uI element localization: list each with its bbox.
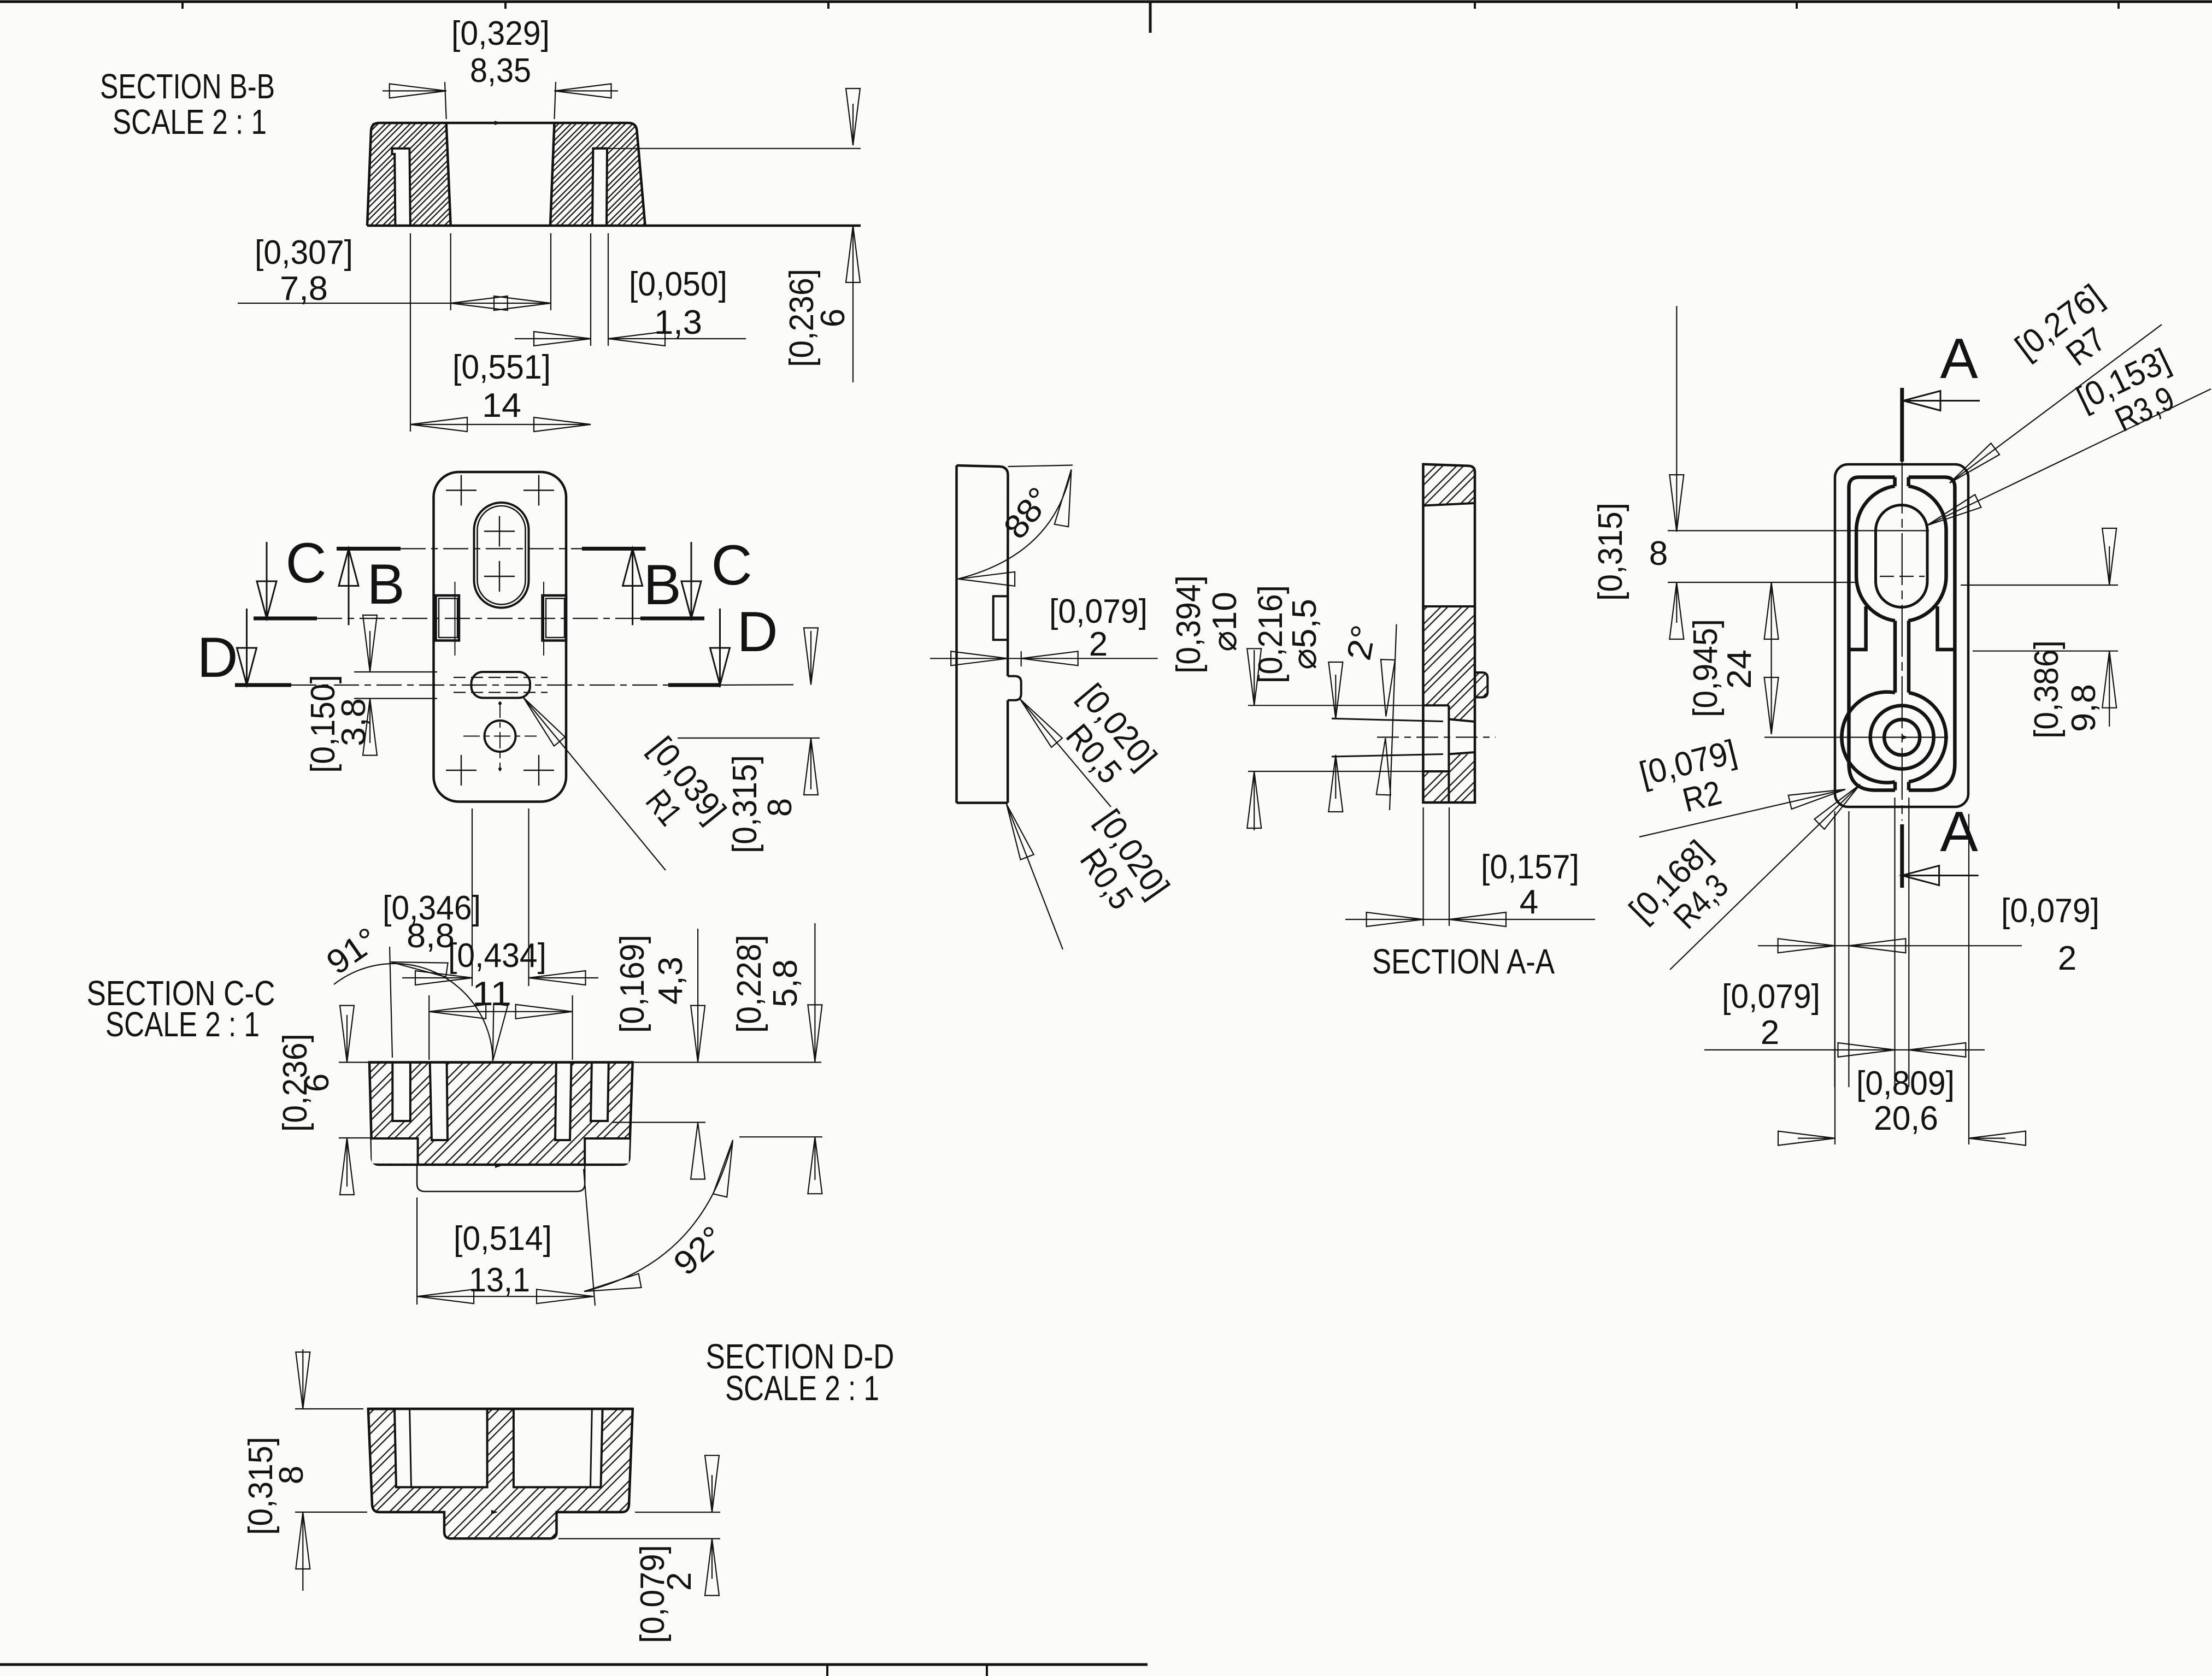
top edge re-stroke (368, 1408, 633, 1411)
inner opening walls (446, 123, 555, 226)
part outline (367, 123, 645, 226)
hatched bottom blocks (1423, 754, 1475, 803)
dim 4,3 vertical outside arrows (697, 929, 698, 1063)
svg-text:14: 14 (482, 387, 521, 424)
svg-text:4,3: 4,3 (652, 957, 690, 1005)
svg-text:A: A (1940, 327, 1978, 391)
svg-text:[0,315]: [0,315] (242, 1437, 280, 1535)
short centerline obround bottom arc (1880, 576, 1925, 577)
left edge (955, 465, 958, 803)
92 deg arc (584, 1140, 733, 1291)
inner wall right (1909, 477, 1955, 790)
svg-text:[0,329]: [0,329] (451, 15, 550, 52)
section line C-C (254, 617, 317, 621)
dim 7,8 line, inside outward arrows (238, 303, 551, 304)
bottom tab (background feature, unsectioned) (417, 1165, 585, 1191)
svg-text:7,8: 7,8 (280, 270, 328, 308)
dim 8 vertical outside arrows (1676, 306, 1677, 532)
dim 2 line (930, 658, 1158, 659)
section C-C hatched silhouette (369, 1063, 633, 1165)
B arrows (339, 548, 643, 625)
centerline (1377, 736, 1496, 737)
svg-text:SCALE 2 : 1: SCALE 2 : 1 (113, 102, 267, 141)
top edge re-stroke (369, 1061, 633, 1064)
central slot walls lower (1893, 782, 1897, 790)
dim 11 line (429, 1011, 572, 1012)
91 deg arc (334, 964, 493, 1061)
left cavity inner line (410, 1409, 411, 1487)
svg-text:A: A (1940, 800, 1978, 864)
svg-text:[0,307]: [0,307] (255, 234, 353, 272)
bottom edge line extended right (367, 225, 861, 227)
phi5,5 dim vertical outside arrows (1335, 675, 1336, 719)
dim 8 vertical outside arrows (810, 631, 811, 684)
zone tick top (504, 2, 507, 9)
svg-text:5,8: 5,8 (767, 959, 804, 1007)
svg-text:[0,315]: [0,315] (1592, 503, 1629, 601)
circle ring outer arcs (1842, 692, 1895, 783)
hole bottom edge (1449, 752, 1475, 754)
R3,9 leader (1927, 389, 2211, 526)
dim 11 ext lines (428, 995, 430, 1060)
phi10 ext lines (1248, 705, 1423, 706)
obround horizontal centerline (1668, 530, 1929, 531)
hatched middle block (1423, 606, 1475, 719)
svg-text:C: C (711, 534, 752, 597)
left slot (392, 149, 410, 226)
title block divider (986, 1665, 988, 1676)
inner vertical (1448, 705, 1450, 802)
dim 2 left ext lines (1834, 811, 1836, 1087)
shaft top line (1332, 718, 1443, 721)
svg-text:[0,169]: [0,169] (614, 935, 651, 1033)
zone tick top (1474, 2, 1476, 9)
svg-text:8,8: 8,8 (407, 917, 455, 955)
svg-text:[0,434]: [0,434] (448, 937, 546, 975)
obround hole inner (1876, 505, 1928, 607)
bottom edge (957, 801, 1008, 804)
svg-text:B: B (367, 553, 404, 616)
R0,5 text bottom rotated (1060, 803, 1176, 926)
A arrows (1903, 391, 1980, 411)
hidden lines in feature (454, 677, 548, 678)
dim 8,35 extension lines (445, 82, 446, 119)
dim 4 ext lines (1423, 807, 1424, 926)
inner wall left (1849, 477, 1896, 790)
foot notch white left (372, 1138, 418, 1164)
R7 leader (1950, 324, 2162, 483)
svg-text:4: 4 (1520, 883, 1538, 921)
svg-text:[0,079]: [0,079] (2001, 892, 2099, 930)
dim 3,8 extension lines (354, 671, 437, 672)
91 deg slot edge extension (390, 947, 392, 1058)
svg-text:11: 11 (472, 975, 511, 1013)
slot head stubs (1893, 477, 1897, 487)
svg-text:6: 6 (298, 1073, 336, 1092)
slot s1 white (392, 1063, 410, 1121)
svg-text:[0,394]: [0,394] (1170, 575, 1208, 674)
dim 4 line outside arrows (1345, 919, 1595, 920)
dim 9,8 ext lines (1961, 585, 2118, 586)
R0,5 top leader (1020, 699, 1111, 807)
dim 1,3 extension lines (590, 233, 591, 346)
right tab hatched (1475, 672, 1487, 698)
R1 rounded-slot feature (472, 672, 531, 698)
central slot walls upper (1893, 621, 1897, 693)
svg-text:2: 2 (1089, 625, 1108, 663)
section line D-D (235, 683, 291, 687)
svg-text:[0,809]: [0,809] (1856, 1065, 1955, 1102)
svg-text:20,6: 20,6 (1874, 1100, 1938, 1137)
obround ring outer (1856, 486, 1895, 621)
svg-text:8: 8 (1649, 535, 1668, 573)
svg-text:[0,945]: [0,945] (1687, 619, 1725, 717)
right cavity white (514, 1409, 603, 1487)
top edge with corner (957, 465, 1008, 676)
zone tick top (1796, 2, 1798, 9)
svg-text:2: 2 (2058, 940, 2076, 977)
svg-text:SECTION B-B: SECTION B-B (100, 67, 275, 106)
sheet top border (0, 1, 2212, 3)
svg-text:[0,551]: [0,551] (452, 349, 551, 386)
svg-text:8: 8 (761, 798, 799, 817)
dim text R1 rotated (614, 730, 733, 853)
boss top edge (1423, 704, 1449, 706)
2deg tilted line (1390, 624, 1397, 810)
dim 2 left line outside arrows (1758, 945, 2022, 946)
svg-text:3,8: 3,8 (335, 698, 373, 746)
dim text R2 rotated (1636, 733, 1749, 829)
svg-text:⌀5,5: ⌀5,5 (1286, 599, 1323, 670)
title block top edge bottom (0, 1663, 1148, 1666)
dim 9,8 vertical outside arrows (2109, 546, 2110, 585)
dim 14 extension line (410, 233, 411, 432)
left cavity white (395, 1409, 487, 1487)
dim 3,8 vertical with outside arrows (369, 631, 370, 672)
svg-text:SCALE 2 : 1: SCALE 2 : 1 (725, 1368, 879, 1408)
R0,5 text top rotated (1044, 677, 1164, 800)
hatched top block (1423, 464, 1475, 506)
dim 6 ext lines (339, 1061, 369, 1063)
right cavity inner line (591, 1409, 592, 1487)
svg-text:9,8: 9,8 (2065, 684, 2103, 732)
R2 leader (1639, 789, 1845, 837)
svg-text:2: 2 (661, 1572, 698, 1591)
zone tick top (2117, 2, 2120, 9)
outer rounded rect (1835, 464, 1968, 807)
dim 2 right line outside arrows (1704, 1049, 1985, 1051)
svg-text:[0,079]: [0,079] (1049, 593, 1148, 630)
dim 5,8 vertical outside arrows (814, 923, 815, 1061)
section line A-A vertical (1900, 388, 1904, 462)
slot s2 white (430, 1063, 448, 1140)
dim 20,6 ext lines (1834, 814, 1836, 1144)
slot s3 white (555, 1063, 572, 1140)
88 deg arc (958, 470, 1071, 579)
svg-text:[0,050]: [0,050] (629, 265, 727, 303)
dim 5,8 ext line (739, 1136, 822, 1137)
phi10 dim vertical outside arrows (1254, 650, 1255, 705)
hole top edge (1449, 719, 1475, 722)
dim text R3,9 rotated (2071, 341, 2192, 451)
tiny center arrow (1902, 735, 1909, 740)
svg-text:13,1: 13,1 (469, 1261, 530, 1299)
D arrows (237, 609, 730, 685)
dim 24 line inside arrows (1771, 582, 1772, 734)
svg-text:C: C (285, 532, 326, 595)
obround slot inner line (478, 506, 526, 605)
right notch (543, 595, 567, 641)
svg-text:6: 6 (814, 309, 852, 327)
svg-text:24: 24 (1721, 650, 1758, 689)
dim 2 vertical outside arrows (711, 1475, 713, 1512)
tiny datum mark bottom tab (495, 1164, 502, 1168)
inner wall steps (1849, 606, 1866, 650)
top edge extension for 88 (1008, 465, 1073, 467)
side notch (993, 596, 1008, 640)
circle inner (1884, 719, 1920, 755)
dim 8,8 line outside arrows (402, 977, 472, 978)
dim 8 right: extension line (678, 737, 820, 739)
obround lower ext line (1668, 582, 1856, 583)
dim text R4,3 rotated (1622, 833, 1744, 955)
dim 8,8 extension lines (472, 809, 473, 986)
tiny datum mark (491, 1510, 498, 1514)
zone tick top (181, 2, 184, 9)
dim 8 ext lines (295, 1408, 363, 1409)
zone divider top center (1149, 2, 1152, 33)
R0,5 bottom leader (1007, 804, 1063, 949)
part outline rounded rect (434, 472, 567, 802)
svg-text:[0,386]: [0,386] (2028, 640, 2066, 739)
dim 20,6 line outside arrows (1798, 1138, 1835, 1139)
svg-text:[0,514]: [0,514] (454, 1220, 552, 1258)
right edge lower (1007, 700, 1009, 803)
svg-text:1,3: 1,3 (654, 304, 702, 341)
R1 leader (523, 698, 666, 870)
dim 2 right ext lines (1894, 798, 1895, 1087)
boss bottom edge (1423, 770, 1449, 772)
svg-text:2°: 2° (1340, 622, 1383, 663)
dim 8 vertical outside arrows (302, 1349, 303, 1409)
zone tick top (827, 2, 829, 9)
svg-text:[0,079]: [0,079] (634, 1545, 672, 1643)
dim 2 ext lines (635, 1512, 720, 1513)
svg-text:[0,157]: [0,157] (1481, 848, 1579, 886)
svg-text:SECTION A-A: SECTION A-A (1372, 942, 1555, 981)
small circle (485, 721, 516, 752)
svg-text:8: 8 (273, 1466, 310, 1484)
dim text R7 rotated (2009, 278, 2132, 396)
section line B-B (337, 547, 401, 551)
center plus marks (446, 475, 554, 786)
side tab (1008, 676, 1021, 700)
section D-D hatched silhouette (368, 1409, 633, 1538)
svg-text:[0,228]: [0,228] (731, 935, 768, 1033)
R4,3 leader (1670, 784, 1860, 970)
svg-text:8,35: 8,35 (470, 52, 531, 90)
shaft bottom line (1332, 754, 1443, 757)
svg-text:[0,079]: [0,079] (1722, 978, 1820, 1016)
C arrows (257, 542, 701, 618)
svg-text:⌀10: ⌀10 (1206, 592, 1244, 652)
dim 6 vertical outside arrows (346, 1015, 348, 1063)
foot notch white right (585, 1138, 630, 1164)
left notch (436, 595, 460, 641)
svg-text:SCALE 2 : 1: SCALE 2 : 1 (105, 1005, 260, 1044)
section B-B part cross-section hatched body (367, 123, 645, 226)
dim 14 line inside outward arrows (410, 424, 591, 425)
svg-text:2: 2 (1761, 1014, 1779, 1052)
plate outline (1423, 464, 1475, 802)
tiny dots (498, 702, 502, 705)
right slot (592, 149, 607, 226)
circle centerlines (463, 736, 537, 737)
dim 6 vertical line with outside arrows (852, 104, 854, 145)
dim 4,3 ext lines (634, 1061, 821, 1063)
tab right edge extension 92 ref (584, 1169, 595, 1306)
circle horizontal centerline (1764, 736, 1948, 737)
dim 8,35 line with outside arrows (383, 90, 446, 91)
dim 7,8 extension lines (450, 233, 451, 310)
svg-text:[0,216]: [0,216] (1252, 585, 1290, 683)
dim 13,1 ext lines (416, 1197, 417, 1305)
notch center ticks (455, 582, 456, 656)
svg-text:B: B (643, 553, 681, 617)
dim 13,1 line inside arrows (417, 1296, 593, 1297)
title block divider (826, 1665, 828, 1676)
slot s4 white (591, 1063, 609, 1121)
tiny datum mark top center (495, 121, 501, 125)
svg-text:D: D (737, 600, 778, 664)
window lines (1423, 503, 1475, 506)
dim 1,3 line outside arrows (515, 338, 591, 339)
svg-text:D: D (197, 626, 238, 689)
slot-top extension line to 6-dim (607, 148, 861, 149)
circle middle (1870, 706, 1934, 769)
obround slot outer (474, 503, 529, 608)
